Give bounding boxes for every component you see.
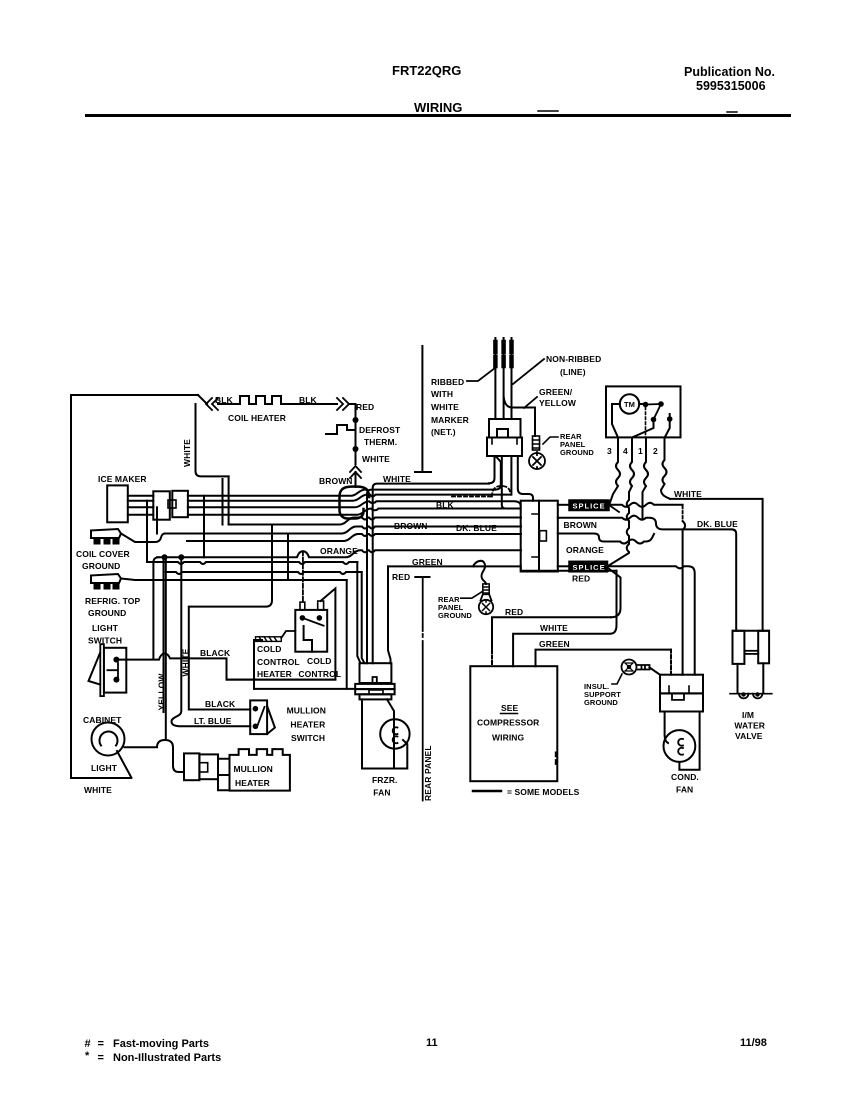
svg-text:WHITE: WHITE (84, 785, 112, 795)
wire vertical x288 (287, 534, 289, 581)
bus wire 6 coil cover ground run (165, 527, 521, 534)
timer pin2 internal (665, 414, 670, 438)
svg-text:ICE MAKER: ICE MAKER (98, 474, 147, 484)
node junction dot defrost bottom (353, 446, 359, 452)
wire black lower horizontal y688.9 (254, 688, 355, 690)
svg-text:WIRING: WIRING (492, 733, 525, 743)
wire refrig top ground to bus y580 (121, 579, 347, 581)
mullion switch arm (257, 707, 265, 728)
resistor coil heater element (square bumps) (240, 396, 285, 404)
svg-text:*: * (85, 1050, 90, 1062)
water valve bottom line (730, 693, 772, 695)
ice maker connector half right (172, 491, 188, 517)
plug middle prong line (502, 456, 506, 509)
node dot yellow tap (162, 554, 168, 560)
svg-text:DK. BLUE: DK. BLUE (456, 523, 497, 533)
svg-text:WHITE: WHITE (383, 474, 411, 484)
label RIBBED WITH WHITE MARKER (NET.) (431, 377, 469, 437)
svg-text:GROUND: GROUND (584, 698, 618, 707)
water valve feet dots (741, 692, 745, 696)
power plug body upper (489, 419, 521, 438)
wire red horizontal to compressor (492, 617, 611, 650)
node light switch terminal bottom (113, 677, 119, 683)
cold control stub left (300, 602, 305, 610)
wire freezer fan bottom (362, 740, 407, 769)
wire vertical x222 (222, 479, 224, 525)
svg-text:I/M: I/M (742, 710, 754, 720)
mullion heater box with castellated top (230, 749, 290, 791)
wire green2 to cond fan (536, 650, 672, 667)
wire timer pin1 drop (643, 438, 649, 518)
wire white right top (670, 499, 763, 631)
svg-text:WHITE: WHITE (540, 623, 568, 633)
label blk helper none (188, 509, 521, 515)
cold control box (295, 610, 327, 652)
power cord line 1 (494, 338, 496, 419)
svg-text:REFRIG. TOP: REFRIG. TOP (85, 596, 140, 606)
wire black from switch top (116, 654, 335, 680)
cold control switch arm (302, 618, 323, 626)
center connector block (521, 501, 558, 572)
wire defrost vertical to bus (355, 472, 357, 487)
callout line green/yellow (524, 397, 537, 408)
power plug inner tab (497, 429, 508, 437)
wire block to splice2 (558, 565, 571, 567)
wire cold control right stub up (227, 588, 336, 679)
svg-text:5995315006: 5995315006 (696, 79, 766, 93)
svg-text:SEE: SEE (501, 703, 519, 713)
svg-text:COIL COVER: COIL COVER (76, 549, 130, 559)
wire defrost vertical upper (355, 420, 357, 447)
wire cond fan left lead (665, 712, 668, 744)
power plug body lower (487, 438, 522, 457)
mullion connector half right (199, 754, 218, 779)
svg-text:LIGHT: LIGHT (91, 763, 118, 773)
connector chevron up-arrows on defrost wire (350, 466, 361, 478)
svg-text:RIBBED: RIBBED (431, 377, 464, 387)
svg-text:RED: RED (392, 572, 410, 582)
bus wire 3 blk jog up (188, 501, 521, 507)
label REAR PANEL GROUND top (560, 432, 594, 457)
svg-text:GREEN: GREEN (412, 557, 443, 567)
svg-text:FRZR.: FRZR. (372, 775, 398, 785)
wire cabinet light leader diagonal (117, 751, 131, 778)
svg-text:=: = (98, 1052, 104, 1064)
light switch plate (100, 644, 104, 696)
svg-text:COMPRESSOR: COMPRESSOR (477, 718, 539, 728)
svg-text:= SOME MODELS: = SOME MODELS (507, 787, 580, 797)
divider rear panel upper line (415, 346, 431, 472)
freezer fan motor circle (380, 719, 409, 748)
wire heater bar to cold control stub (281, 631, 295, 638)
wire fan feed 3 (357, 562, 360, 663)
label NON-RIBBED (LINE) (546, 354, 601, 377)
svg-text:BLACK: BLACK (200, 648, 231, 658)
freezer fan connector tab trapezoid (369, 690, 383, 693)
svg-text:HEATER: HEATER (235, 778, 270, 788)
wire cabinet light to connector white (125, 740, 185, 772)
splice box 2 (569, 561, 608, 572)
light switch body (104, 648, 126, 693)
label INSUL. SUPPORT GROUND (584, 682, 621, 707)
svg-text:SWITCH: SWITCH (291, 733, 325, 743)
wire orange from block (558, 534, 654, 544)
freezer fan connector lower body (360, 694, 392, 699)
wire timer pin4 drop (608, 438, 634, 567)
mullion connector half left (184, 753, 199, 780)
wire timer common to contact (639, 403, 645, 405)
freezer fan connector flange 1 (355, 684, 394, 689)
plug right prong outline (511, 456, 533, 501)
svg-text:NON-RIBBED: NON-RIBBED (546, 354, 601, 364)
wires ice maker to connector (128, 496, 154, 515)
mullion switch flag (267, 706, 275, 734)
header rule dashes (538, 111, 737, 112)
svg-text:LT. BLUE: LT. BLUE (194, 716, 232, 726)
svg-text:BLK: BLK (299, 395, 318, 405)
timer switch arm A-C (646, 404, 662, 420)
wire to defrost corner (349, 404, 356, 417)
svg-text:ORANGE: ORANGE (320, 546, 358, 556)
connector chevron right on blk wire (337, 398, 349, 410)
svg-text:3: 3 (607, 446, 612, 456)
connector chevron left on blk wire (206, 398, 218, 410)
wire fan feed 4 (362, 572, 365, 663)
label REAR PANEL GROUND mid (438, 595, 472, 620)
svg-text:GROUND: GROUND (82, 561, 120, 571)
node timer contact C (651, 417, 657, 423)
water valve left lead (737, 664, 739, 694)
svg-text:BLK: BLK (436, 500, 455, 510)
compressor box right edge dashes (555, 752, 557, 764)
legend dashed some models (473, 790, 501, 793)
svg-text:GREEN: GREEN (539, 639, 570, 649)
node timer contact D (667, 416, 673, 422)
svg-text:WIRING: WIRING (414, 100, 462, 115)
callout line rear panel ground top (543, 437, 558, 444)
svg-text:LIGHT: LIGHT (92, 623, 119, 633)
node cold control terminal right (317, 615, 323, 621)
timer box (606, 386, 681, 437)
svg-text:SPLICE: SPLICE (573, 502, 606, 511)
water valve right coil (758, 631, 769, 664)
light switch plunger flag (89, 653, 101, 685)
svg-text:WHITE: WHITE (362, 454, 390, 464)
wire freezer fan left lead (361, 699, 363, 768)
center connector block divider (538, 501, 540, 572)
footer non-illustrated parts (85, 1050, 221, 1064)
ice maker connector half left (153, 491, 170, 519)
svg-text:COLD: COLD (257, 644, 281, 654)
wire insul ground to plug (650, 668, 661, 675)
callout insul support ground (612, 674, 622, 684)
center connector block tab (540, 531, 547, 541)
water valve feet arcs (739, 694, 762, 699)
wire coil cover ground to bus (121, 534, 165, 543)
wire left cabinet border (71, 395, 198, 778)
mullion connector tab (199, 763, 207, 772)
svg-text:GROUND: GROUND (438, 611, 472, 620)
bus wire orange (157, 550, 521, 557)
svg-text:WITH: WITH (431, 389, 453, 399)
timer pin4 internal (632, 420, 654, 438)
svg-text:Non-Illustrated Parts: Non-Illustrated Parts (113, 1052, 221, 1064)
svg-text:(LINE): (LINE) (560, 367, 586, 377)
wires mullion connector to heater (218, 759, 230, 791)
wire vertical lt blue x181.3 (172, 557, 251, 726)
power cord line 3 (511, 338, 513, 419)
wire freezer fan center lead (387, 699, 394, 768)
wire vertical x147 (146, 501, 148, 562)
divider rear panel lower dashes (422, 628, 424, 637)
svg-text:1: 1 (638, 446, 643, 456)
svg-text:GREEN/: GREEN/ (539, 387, 573, 397)
compressor box (470, 666, 557, 781)
svg-text:HEATER: HEATER (257, 669, 292, 679)
wire green1 to fan connector (388, 566, 391, 663)
footer fast-moving parts (85, 1038, 209, 1050)
header rule (85, 114, 791, 117)
svg-text:COIL HEATER: COIL HEATER (228, 413, 286, 423)
wire red dashed into compressor (491, 650, 493, 666)
svg-text:CONTROL: CONTROL (257, 657, 300, 667)
ground screw rear panel 2 bulb (479, 594, 493, 614)
svg-text:COLD: COLD (307, 656, 331, 666)
cabinet light bulb circle (92, 723, 125, 756)
svg-text:#: # (85, 1038, 91, 1050)
insul support ground lug (637, 665, 650, 670)
wire heater loop vertical x254 (254, 640, 262, 689)
defrost thermostat sensor symbol (326, 425, 356, 434)
wire BLK right segment (285, 403, 337, 405)
node timer contact B (658, 401, 664, 407)
cold control step symbol (304, 626, 312, 652)
label SEE underlined (501, 703, 519, 713)
cond fan motor circle (664, 730, 696, 762)
svg-text:BLACK: BLACK (205, 699, 236, 709)
wire timer pin3 internal (612, 404, 620, 438)
wire vertical yellow x165.8 (165, 557, 167, 740)
svg-text:WATER: WATER (734, 721, 765, 731)
ground screw rear panel (top) stem (533, 436, 540, 450)
svg-text:WHITE: WHITE (182, 439, 192, 467)
wire cond fan right lead (679, 712, 699, 770)
wire bundle lasso loop (340, 487, 370, 519)
ice maker box (107, 485, 128, 522)
water valve right lead (762, 663, 764, 693)
svg-text:Fast-moving Parts: Fast-moving Parts (113, 1038, 209, 1050)
svg-text:YELLOW: YELLOW (539, 398, 577, 408)
cond fan plug ticks (669, 686, 689, 693)
svg-text:RED: RED (356, 402, 374, 412)
svg-text:FRT22QRG: FRT22QRG (392, 63, 461, 78)
wire coil heater top lead-in diagonal (198, 395, 207, 404)
mullion heater switch body (250, 700, 267, 734)
svg-text:FAN: FAN (676, 785, 693, 795)
wire brown from block to dk blue (558, 516, 732, 530)
svg-text:11: 11 (426, 1037, 438, 1049)
node dot lt blue tap (178, 554, 184, 560)
bus wire 2 jog up (188, 495, 511, 501)
insul support ground ring (622, 660, 637, 675)
water valve top bar (733, 630, 769, 632)
svg-text:WHITE: WHITE (674, 489, 702, 499)
svg-text:TM: TM (624, 400, 635, 409)
svg-text:COND.: COND. (671, 772, 699, 782)
ground screw rear panel 2 stem (483, 584, 489, 595)
ice maker connector tab (168, 500, 176, 508)
wire splice1 to cond fan drop (609, 503, 683, 507)
wire orange tap down to cold control (302, 551, 304, 602)
wire white down bend to compressor (513, 571, 616, 666)
wire loop vertical x346 (346, 580, 348, 689)
svg-text:GROUND: GROUND (560, 448, 594, 457)
power cord line 2 with green/yellow tap (504, 338, 535, 436)
plug left prong outline to bus (489, 456, 501, 490)
callout line non-ribbed (513, 359, 544, 384)
wire fan feed 3 long (147, 562, 357, 564)
wire vertical x157 (156, 507, 158, 533)
svg-text:YELLOW: YELLOW (157, 673, 167, 711)
svg-text:11/98: 11/98 (740, 1037, 767, 1049)
wire green2 drop to cond fan plug dashed (670, 650, 672, 675)
node junction dot defrost top (353, 417, 359, 423)
ground clamp refrig top (91, 574, 121, 589)
freezer fan connector body (360, 663, 392, 683)
splice 1 arrow diagonals (609, 505, 619, 512)
wire black2 corner path (189, 525, 272, 710)
svg-text:DK. BLUE: DK. BLUE (697, 519, 738, 529)
wire vertical white feed x153 (153, 557, 158, 658)
freezer fan connector flange 2 (355, 689, 394, 694)
svg-text:ORANGE: ORANGE (566, 545, 604, 555)
ribbed marker ticks on cords (495, 342, 511, 366)
bus wire 7 (187, 534, 521, 541)
svg-text:REAR PANEL: REAR PANEL (423, 745, 433, 801)
callout line ribbed (467, 368, 495, 381)
svg-text:GROUND: GROUND (88, 608, 126, 618)
svg-text:Publication No.: Publication No. (684, 65, 775, 79)
node cold control terminal left (300, 615, 306, 621)
wire dk blue to valve (732, 529, 736, 630)
ground clamp coil cover (91, 529, 121, 544)
light switch contact T (107, 663, 118, 678)
svg-text:BLK: BLK (215, 395, 234, 405)
cond fan plug notch (672, 693, 684, 700)
freezer fan motor coil symbol (393, 727, 398, 743)
svg-text:HEATER: HEATER (290, 719, 325, 729)
wire timer pin2 drop (661, 438, 670, 499)
wire vertical x204 (203, 496, 205, 558)
center connector block ticks (532, 514, 538, 557)
wire red from splice2 down (608, 568, 621, 617)
svg-text:=: = (98, 1038, 104, 1050)
water valve left coil (733, 631, 745, 664)
timer motor TM circle (620, 394, 639, 413)
fan bundle vertical white 1 (373, 484, 489, 664)
svg-text:(NET.): (NET.) (431, 427, 456, 437)
cabinet light inner arc (100, 732, 118, 746)
freezer fan connector notch (373, 677, 377, 683)
wire defrost vertical lower (355, 449, 357, 464)
node light switch terminal top (113, 657, 119, 663)
ground screw rear panel (top) bulb (529, 452, 545, 469)
wire coil heater white left vertical (196, 404, 229, 476)
svg-text:FAN: FAN (373, 788, 390, 798)
wire BLK left segment (218, 403, 240, 405)
wire splice2 to cond fan right pin (608, 566, 695, 674)
svg-text:VALVE: VALVE (735, 731, 763, 741)
svg-text:RED: RED (505, 607, 523, 617)
wire timer pin3 drop (610, 438, 621, 505)
cond fan plug lower (660, 693, 703, 711)
svg-text:4: 4 (623, 446, 628, 456)
cond fan plug upper (660, 675, 703, 694)
bus wire 5 (white jog) (229, 518, 521, 525)
wire white jog down to bus (228, 476, 230, 524)
cold control heater element hatched bar (256, 637, 282, 642)
timer pin1 dashed internal (645, 407, 647, 438)
svg-text:WHITE: WHITE (431, 402, 459, 412)
fan bundle vertical 2 (367, 490, 495, 664)
label GREEN/YELLOW (539, 387, 577, 408)
wire fan feed 4 long (166, 572, 362, 574)
dotted some-models wire near plug (452, 486, 510, 497)
svg-text:BROWN: BROWN (394, 521, 428, 531)
svg-text:MARKER: MARKER (431, 415, 469, 425)
svg-text:MULLION: MULLION (234, 764, 273, 774)
wire vertical pair x163 (163, 557, 165, 712)
node mullion switch terminal bottom (253, 724, 259, 730)
water valve middle bar (744, 651, 758, 654)
node mullion switch terminal top (253, 706, 259, 712)
svg-text:DEFROST: DEFROST (359, 425, 401, 435)
svg-text:MULLION: MULLION (287, 706, 326, 716)
power plug side ticks (492, 439, 517, 444)
wire red tick (415, 576, 429, 578)
svg-text:RED: RED (572, 574, 590, 584)
wire green1 horizontal (388, 561, 617, 584)
svg-text:THERM.: THERM. (364, 437, 397, 447)
splice box 1 (569, 500, 609, 511)
divider rear panel lower line (422, 577, 424, 801)
svg-text:SWITCH: SWITCH (88, 636, 122, 646)
svg-text:2: 2 (653, 446, 658, 456)
callout rear panel ground mid (461, 591, 483, 598)
svg-text:BROWN: BROWN (564, 520, 598, 530)
svg-text:BROWN: BROWN (319, 476, 353, 486)
node timer contact A (643, 402, 649, 408)
bus wire 1 jog up (188, 490, 367, 496)
wire block to splice1 (558, 504, 571, 506)
cold control stub right (318, 601, 324, 610)
cond fan motor coil symbol (678, 739, 683, 755)
